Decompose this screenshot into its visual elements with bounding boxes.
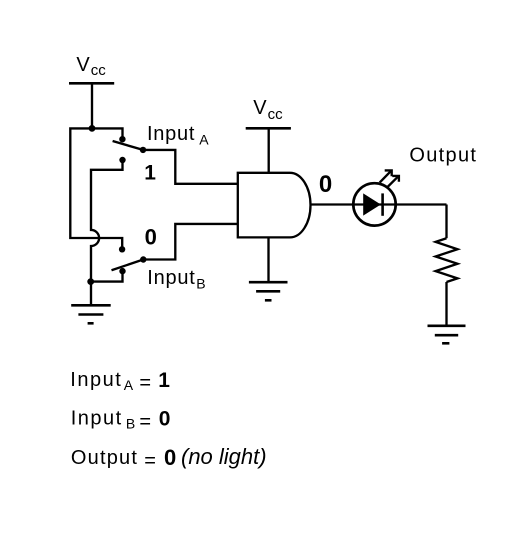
svg-text:V: V <box>76 54 90 76</box>
svg-text:=: = <box>139 372 151 394</box>
svg-text:(no light): (no light) <box>181 444 267 469</box>
svg-text:Output: Output <box>71 447 138 469</box>
svg-text:0: 0 <box>145 224 157 249</box>
svg-text:cc: cc <box>91 62 107 79</box>
svg-text:0: 0 <box>159 408 171 431</box>
svg-text:Input: Input <box>147 123 195 145</box>
svg-text:0: 0 <box>319 171 332 198</box>
svg-text:B: B <box>196 276 205 292</box>
svg-text:1: 1 <box>158 369 170 392</box>
svg-text:Output: Output <box>409 144 477 166</box>
svg-text:A: A <box>124 377 134 393</box>
svg-text:=: = <box>144 450 156 472</box>
svg-text:Input: Input <box>71 408 123 430</box>
svg-text:A: A <box>199 132 209 148</box>
svg-text:V: V <box>253 97 267 119</box>
svg-text:cc: cc <box>268 106 284 123</box>
svg-text:1: 1 <box>144 161 156 184</box>
svg-text:Input: Input <box>70 369 122 391</box>
svg-text:0: 0 <box>164 445 176 470</box>
svg-text:Input: Input <box>147 267 195 289</box>
svg-text:B: B <box>126 416 135 432</box>
svg-text:=: = <box>139 411 151 433</box>
